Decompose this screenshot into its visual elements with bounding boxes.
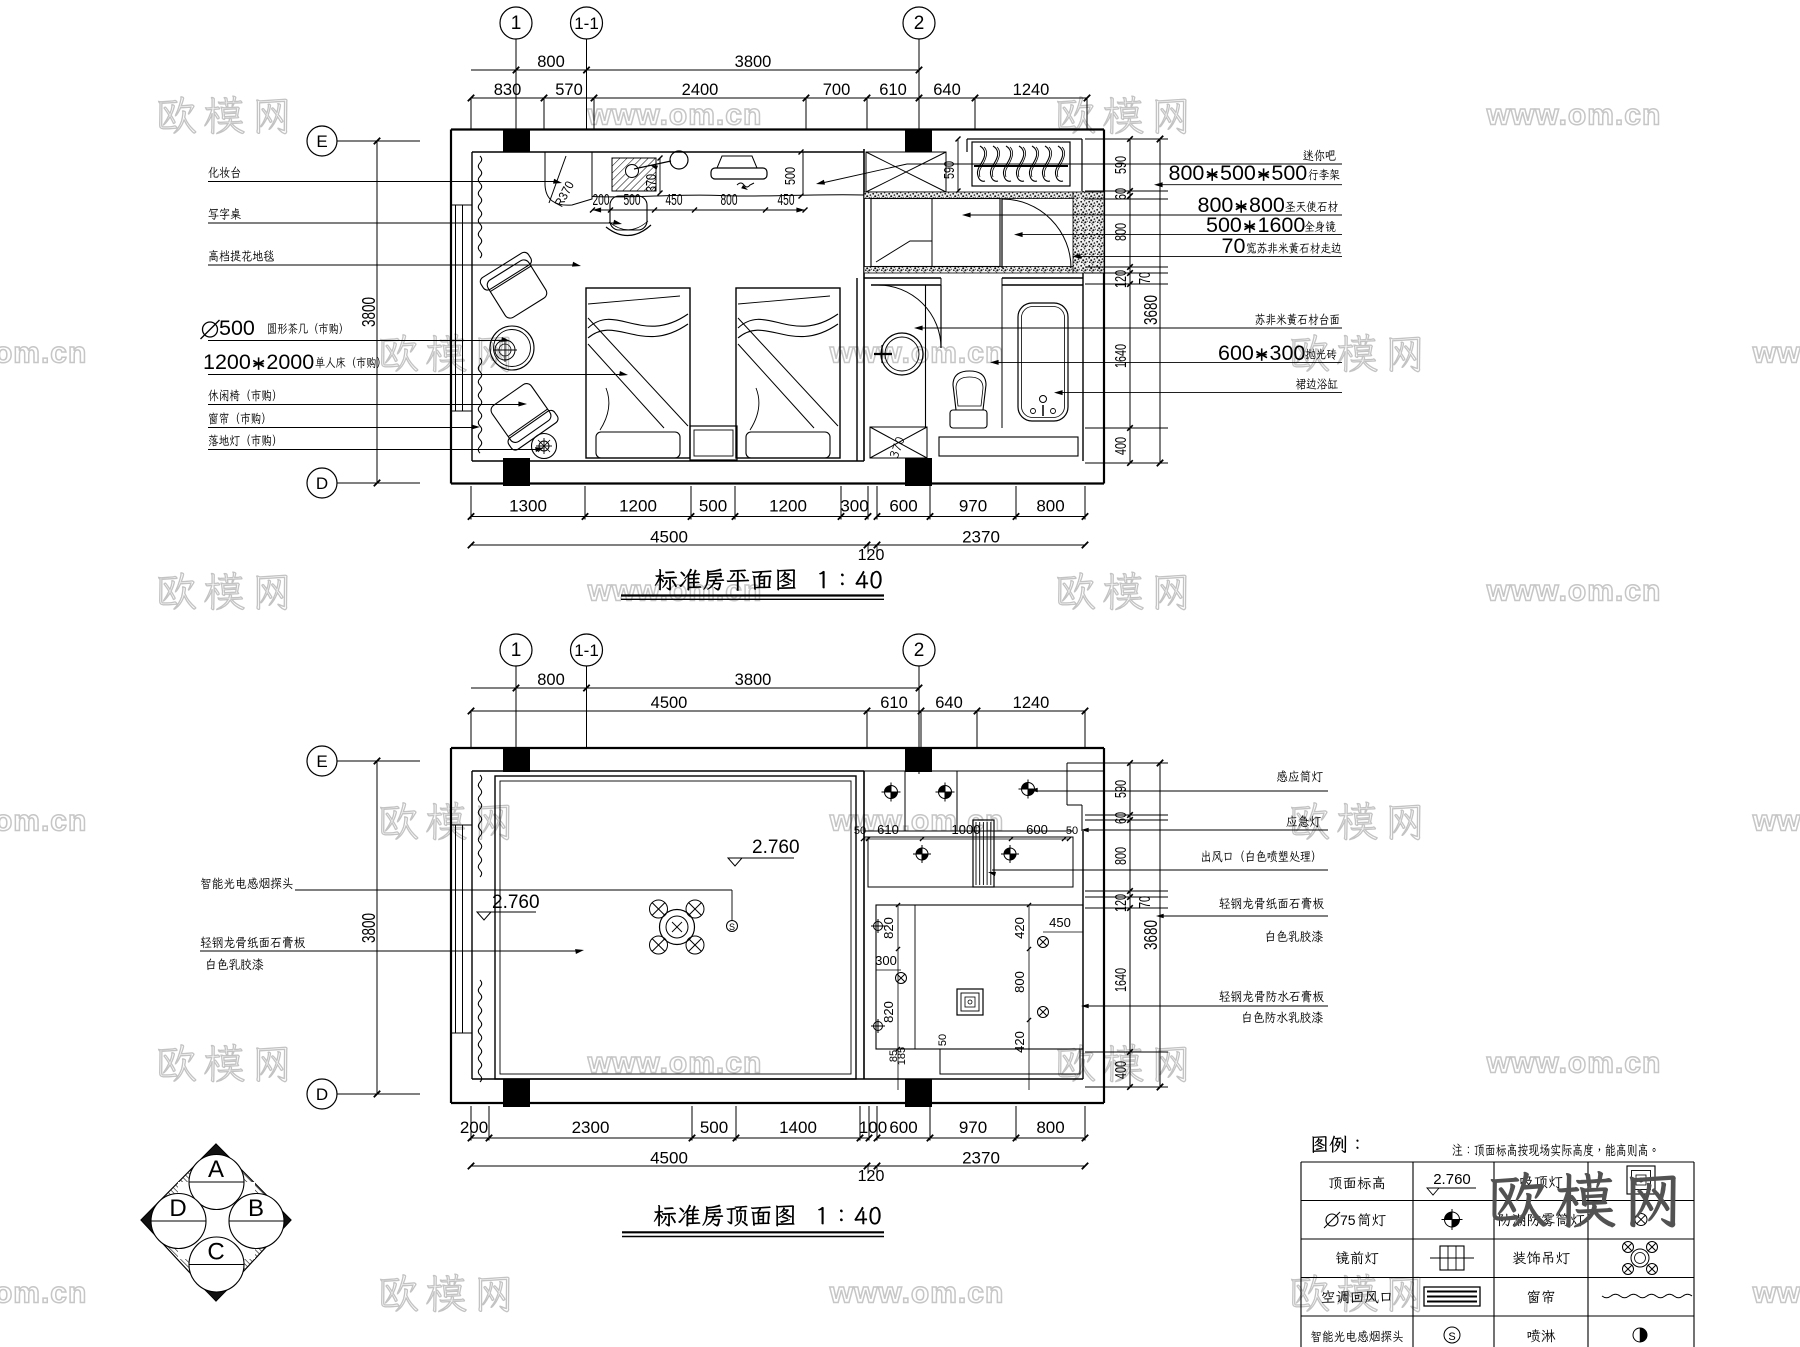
svg-text:100: 100 — [859, 1118, 887, 1137]
luggage rack rail — [974, 165, 1068, 167]
axis 1-1 circle — [571, 7, 603, 39]
svg-text:370: 370 — [643, 174, 660, 192]
bottom extension lines — [470, 486, 472, 520]
svg-text:1640: 1640 — [1113, 968, 1130, 992]
svg-text:1640: 1640 — [1113, 344, 1130, 368]
axis 1 circle — [500, 7, 532, 39]
svg-text:820: 820 — [881, 917, 896, 939]
mirror lights — [916, 848, 928, 860]
circle C — [189, 1237, 244, 1292]
svg-text:800: 800 — [537, 53, 565, 71]
svg-text:120: 120 — [1113, 894, 1130, 912]
label 轻钢龙骨防水石膏板 — [1219, 990, 1324, 1002]
svg-text:200: 200 — [460, 1118, 488, 1137]
svg-text:4500: 4500 — [651, 694, 688, 712]
chandelier symbol (legend) — [1631, 1249, 1649, 1267]
wet ceiling inner line — [914, 905, 916, 1049]
svg-text:www.om.cn: www.om.cn — [0, 805, 87, 838]
dressing table (quarter round) — [545, 152, 592, 205]
svg-text:640: 640 — [935, 694, 963, 712]
svg-text:1-1: 1-1 — [574, 14, 599, 33]
TV screen bar — [711, 168, 767, 179]
window glazing lines — [455, 205, 457, 411]
window glazing (bottom plan) — [455, 825, 457, 1033]
svg-text:400: 400 — [1113, 1061, 1130, 1079]
svg-text:www.om.cn: www.om.cn — [0, 337, 87, 370]
svg-text:500: 500 — [700, 1118, 728, 1137]
svg-text:300: 300 — [840, 497, 868, 516]
ceiling border inner — [500, 781, 851, 1074]
label 白色乳胶漆 (right) — [1266, 930, 1322, 942]
bed 2 — [736, 288, 840, 458]
dim 370 in shower box — [889, 436, 905, 459]
right chain1 (bottom) — [1129, 763, 1131, 1087]
bottom dim row2 (bottom plan) — [471, 1165, 1085, 1167]
svg-text:1200: 1200 — [203, 350, 251, 374]
svg-text:800: 800 — [537, 671, 565, 689]
svg-text:2300: 2300 — [572, 1118, 610, 1137]
svg-text:500: 500 — [699, 497, 727, 516]
label 应急灯 — [1287, 815, 1321, 827]
circle D — [151, 1194, 206, 1249]
svg-text:420: 420 — [1012, 917, 1027, 939]
niche step (bottom plan) — [1067, 762, 1104, 764]
right chain2 3680 — [1159, 139, 1161, 463]
watermark row y=114 — [159, 96, 287, 133]
3800 vertical dim — [376, 141, 378, 483]
axis 1-1 circle (bottom) — [571, 634, 603, 666]
dim row 800/3800 — [471, 69, 919, 71]
label 感应筒灯 — [1277, 770, 1323, 782]
svg-text:2: 2 — [914, 13, 925, 34]
svg-text:400: 400 — [1113, 437, 1130, 455]
toilet tank — [950, 410, 987, 428]
column bottom-left (bottom) — [503, 1079, 530, 1107]
svg-text:1-1: 1-1 — [574, 641, 599, 660]
top wall outer — [451, 128, 1104, 130]
partition bedroom/bath main line — [863, 149, 865, 461]
svg-text:D: D — [169, 1195, 186, 1222]
svg-text:1: 1 — [511, 13, 522, 34]
mirror lamp circle on hatch — [626, 165, 639, 178]
wet room west wall second line — [856, 278, 858, 461]
column bottom-left — [503, 458, 530, 486]
dim 590 vertical in niche — [957, 139, 959, 191]
svg-text:800: 800 — [1036, 497, 1064, 516]
bottom wall inner (bottom plan) — [472, 1078, 1083, 1080]
half-filled circle symbol — [1633, 1328, 1647, 1342]
top wall inner — [472, 151, 864, 153]
stone band top (speckle) — [864, 192, 1073, 199]
bottom dim row1 (bottom plan) — [471, 1137, 869, 1139]
svg-text:1300: 1300 — [509, 497, 547, 516]
axis extension lines — [515, 39, 517, 152]
entry door leaf — [1001, 199, 1003, 268]
svg-text:1240: 1240 — [1013, 81, 1050, 99]
svg-text:1200: 1200 — [619, 497, 657, 516]
svg-text:60: 60 — [1113, 188, 1130, 200]
svg-text:www.om.cn: www.om.cn — [1752, 1277, 1800, 1310]
ceiling border outer — [495, 776, 856, 1079]
svg-text:2370: 2370 — [962, 1149, 1000, 1168]
svg-text:70: 70 — [1137, 272, 1154, 284]
svg-text:1240: 1240 — [1013, 694, 1050, 712]
svg-text:www.om.cn: www.om.cn — [829, 337, 1005, 370]
bottom wall inner — [472, 460, 864, 462]
shower x-box — [870, 427, 927, 458]
svg-text:www.om.cn: www.om.cn — [587, 1047, 763, 1080]
svg-text:820: 820 — [881, 1001, 896, 1023]
lounge chair 2 — [485, 379, 560, 452]
bottom shelf rect (ceiling) — [940, 1049, 1080, 1074]
svg-text:500: 500 — [1220, 161, 1256, 185]
svg-text:640: 640 — [933, 81, 961, 99]
svg-text:1400: 1400 — [779, 1118, 817, 1137]
svg-text:3800: 3800 — [735, 671, 772, 689]
svg-text:75: 75 — [1340, 1212, 1356, 1228]
axis D circle (bottom) — [307, 1079, 337, 1109]
svg-text:800: 800 — [1036, 1118, 1064, 1137]
column bottom-right (bottom) — [905, 1079, 932, 1107]
mirror square hatched — [612, 158, 656, 191]
svg-text:D: D — [316, 1085, 328, 1104]
right wall outer (bottom plan) — [1103, 748, 1105, 1103]
svg-text:1200: 1200 — [769, 497, 807, 516]
entry zone lines — [864, 770, 1104, 772]
right wall inner (bottom plan) — [1082, 831, 1084, 1079]
svg-text:450: 450 — [666, 192, 683, 209]
right wall inner lower — [1082, 270, 1084, 461]
partition line (bottom) — [863, 771, 865, 1079]
svg-text:3800: 3800 — [359, 913, 379, 943]
label 窗帘(市购) — [209, 412, 265, 424]
mirror lamp arm — [634, 161, 671, 169]
svg-text:A: A — [208, 1156, 224, 1183]
bathtub inner — [1022, 307, 1065, 418]
minibar divider — [802, 152, 804, 194]
svg-text:120: 120 — [1113, 270, 1130, 288]
svg-text:www.om.cn: www.om.cn — [1486, 575, 1662, 608]
glasses squiggle — [737, 183, 754, 187]
row4 空调回风口 — [1322, 1290, 1391, 1303]
chandelier center — [660, 910, 695, 945]
svg-text:70: 70 — [1222, 234, 1246, 258]
big dark watermark 欧模网 over legend — [1491, 1171, 1676, 1228]
desk front edge — [592, 195, 864, 197]
label 迷你吧 — [1303, 150, 1335, 162]
svg-text:800: 800 — [1169, 161, 1205, 185]
row5 智能光电感烟探头 — [1311, 1330, 1403, 1342]
smoke detector leader — [295, 889, 732, 891]
svg-text:50: 50 — [854, 825, 866, 837]
label 白色防水乳胶漆 — [1243, 1011, 1323, 1023]
nightstand — [690, 426, 737, 460]
inner square white — [178, 1182, 255, 1259]
svg-text:450: 450 — [1049, 915, 1071, 930]
svg-text:C: C — [207, 1239, 224, 1266]
column bottom-right — [905, 458, 932, 486]
label 轻钢龙骨纸面石膏板 (left) — [201, 936, 306, 948]
svg-text:E: E — [316, 132, 327, 151]
right wall inner upper — [1082, 191, 1084, 199]
label 白色乳胶漆 (left) — [207, 958, 263, 970]
svg-text:www.om.cn: www.om.cn — [829, 1277, 1005, 1310]
curtain wavy (bottom plan) — [478, 775, 481, 877]
vanity bulkhead strip — [868, 837, 1073, 887]
svg-text:800: 800 — [1012, 971, 1027, 993]
label 智能光电感烟探头 — [201, 877, 293, 889]
dim row 4500/610/640/1240 (bottom) — [471, 710, 1085, 712]
right extension lines — [1085, 138, 1168, 140]
svg-text:600: 600 — [1026, 822, 1048, 837]
watermark row y=1062 — [159, 1044, 287, 1081]
label 休闲椅(市购) — [208, 389, 275, 401]
dim 500 vertical at TV — [799, 150, 804, 155]
washbasin inner — [885, 337, 919, 371]
diamond corner darks — [196, 1144, 236, 1164]
svg-text:185: 185 — [896, 1047, 908, 1065]
svg-text:700: 700 — [823, 81, 851, 99]
svg-text:www.om.cn: www.om.cn — [587, 99, 763, 132]
row1 square lamp symbol — [1627, 1166, 1655, 1194]
stone band bottom (speckle) — [864, 267, 1073, 274]
mirror light symbol — [1440, 1246, 1464, 1270]
svg-text:B: B — [248, 1195, 264, 1222]
grille symbol — [1424, 1287, 1480, 1306]
label 轻钢龙骨纸面石膏板 (right) — [1219, 897, 1324, 909]
3800 vertical (bottom) — [376, 761, 378, 1094]
vanity divider — [931, 199, 933, 267]
vanity basin trapezoid — [876, 241, 932, 262]
label Ø500圆形茶几(市购) — [203, 322, 218, 337]
svg-text:www.om.cn: www.om.cn — [587, 575, 763, 608]
niche step lines — [966, 139, 968, 152]
bottom wall outer (bottom plan) — [451, 1102, 1104, 1104]
bathtub outer — [1018, 303, 1068, 421]
label 化妆台 — [208, 166, 240, 178]
bath door leaf — [940, 285, 942, 348]
svg-text:500: 500 — [782, 167, 799, 185]
svg-text:70: 70 — [1137, 896, 1154, 908]
svg-text:120: 120 — [858, 1168, 885, 1185]
svg-text:2.760: 2.760 — [1433, 1171, 1471, 1188]
desk chair — [610, 196, 647, 230]
top wall inner (bottom plan) — [472, 770, 864, 772]
bottom extension lines (bottom plan) — [470, 1106, 472, 1141]
svg-text:S: S — [1448, 1331, 1455, 1343]
svg-text:570: 570 — [555, 81, 583, 99]
wet ceiling dims — [897, 905, 899, 1090]
svg-text:590: 590 — [1113, 780, 1130, 798]
svg-text:www.om.cn: www.om.cn — [1486, 99, 1662, 132]
circle B — [229, 1194, 284, 1249]
svg-text:800: 800 — [1113, 847, 1130, 865]
svg-text:600: 600 — [889, 497, 917, 516]
left wall inner — [471, 152, 473, 461]
title 标准房顶面图 1:40 — [654, 1205, 795, 1227]
axis 2 circle (bottom) — [903, 634, 935, 666]
bath shelf rect — [939, 437, 1078, 456]
wet room divider — [925, 285, 927, 428]
svg-text:500: 500 — [624, 192, 641, 209]
toilet bowl — [953, 371, 986, 410]
right extension lines (bottom) — [1085, 762, 1168, 764]
svg-text:S: S — [729, 922, 735, 932]
diamond hatched ring fill — [141, 1144, 291, 1301]
right wall outer — [1103, 130, 1105, 484]
svg-text:4500: 4500 — [650, 528, 688, 547]
svg-text:1600: 1600 — [1258, 213, 1306, 237]
label 高档提花地毯 — [209, 250, 274, 262]
svg-text:610: 610 — [880, 694, 908, 712]
dim 370 vertical at mirror — [659, 158, 661, 193]
column top-right (bottom) — [905, 748, 932, 772]
title 标准房平面图 1:40 — [655, 569, 796, 591]
svg-text:4500: 4500 — [650, 1149, 688, 1168]
desk dim chain 200/500/450/800/450 — [593, 209, 806, 211]
svg-text:60: 60 — [1113, 812, 1130, 824]
svg-text:500: 500 — [1271, 161, 1307, 185]
row2 Ø75筒灯 — [1326, 1214, 1338, 1226]
top wall outer (bottom plan) — [451, 747, 1104, 749]
tub alcove line — [1001, 285, 1003, 428]
label 出风口(白色喷塑处理) — [1202, 850, 1314, 862]
svg-text:610: 610 — [879, 81, 907, 99]
svg-text:3680: 3680 — [1141, 295, 1161, 325]
dim row 800/3800 (bottom) — [471, 687, 919, 689]
svg-text:500: 500 — [219, 316, 255, 340]
svg-text:450: 450 — [778, 192, 795, 209]
svg-text:970: 970 — [959, 497, 987, 516]
svg-text:50: 50 — [1066, 825, 1078, 837]
row1 顶面标高 — [1329, 1176, 1384, 1189]
strip dim row 50/610/1000/600/50 — [863, 838, 1069, 840]
lamp end circle — [670, 151, 688, 169]
label 苏非米黄石材台面 — [1255, 313, 1339, 325]
left wall outer — [450, 130, 452, 484]
label 落地灯(市购) — [209, 434, 275, 446]
toilet inner — [956, 377, 983, 406]
svg-text:3680: 3680 — [1141, 920, 1161, 950]
dressing table radius line — [549, 156, 566, 203]
60 step line — [864, 836, 1073, 838]
closet x-box — [866, 152, 946, 192]
stone door portal speckle — [1073, 192, 1104, 273]
svg-text:50: 50 — [937, 1034, 949, 1046]
bottom wall outer — [451, 482, 1104, 484]
TV back trapezoid — [717, 156, 757, 168]
svg-text:600: 600 — [889, 1118, 917, 1137]
curtain wavy — [478, 156, 481, 258]
svg-text:420: 420 — [1012, 1031, 1027, 1053]
wet room ceiling rect — [876, 905, 1083, 1049]
svg-text:800: 800 — [721, 192, 738, 209]
column top-left (bottom) — [503, 748, 530, 772]
axis 2 circle — [903, 7, 935, 39]
svg-text:E: E — [316, 752, 327, 771]
luggage rack box — [972, 142, 1070, 186]
svg-text:www.om.cn: www.om.cn — [0, 1277, 87, 1310]
watermark row y=590 — [159, 572, 287, 609]
axis E circle (bottom) — [307, 746, 337, 776]
svg-text:1000: 1000 — [952, 822, 981, 837]
luggage rack hangers — [977, 146, 985, 181]
bottom dim row1 — [471, 516, 868, 518]
svg-text:www.om.cn: www.om.cn — [1752, 805, 1800, 838]
vanity counter rect — [871, 199, 1000, 267]
svg-text:120: 120 — [858, 547, 885, 564]
washbasin outer — [881, 333, 923, 375]
svg-text:970: 970 — [959, 1118, 987, 1137]
column top-right — [905, 130, 932, 153]
svg-text:2400: 2400 — [682, 81, 719, 99]
axis D circle — [307, 468, 337, 498]
wet room north wall lines — [864, 277, 941, 279]
svg-text:610: 610 — [877, 822, 899, 837]
tub drain — [1040, 396, 1047, 403]
svg-text:2.760: 2.760 — [752, 837, 800, 858]
svg-text:3800: 3800 — [735, 53, 772, 71]
svg-text:300: 300 — [875, 953, 897, 968]
bottom dim row2 4500/120/2370 — [471, 544, 1085, 546]
chandelier satellites — [650, 900, 668, 918]
tub faucet dots — [1031, 409, 1036, 414]
right chain2 3680 (bottom) — [1159, 763, 1161, 1087]
axis E circle — [307, 126, 337, 156]
bath door arc — [878, 285, 941, 348]
svg-text:300: 300 — [1270, 341, 1306, 365]
wet ceiling lights — [874, 922, 883, 931]
row3 镜前灯 — [1336, 1251, 1379, 1264]
svg-text:2: 2 — [914, 640, 925, 661]
bed 1 — [586, 288, 690, 458]
svg-text:www.om.cn: www.om.cn — [1752, 337, 1800, 370]
tea table outer — [490, 326, 534, 370]
svg-text:2000: 2000 — [266, 350, 314, 374]
left wall inner (bottom plan) — [471, 771, 473, 1079]
sensor downlights — [885, 786, 898, 799]
axis 1 circle (bottom) — [500, 634, 532, 666]
svg-text:3800: 3800 — [359, 297, 379, 327]
column top-left — [503, 130, 530, 153]
svg-text:2370: 2370 — [962, 528, 1000, 547]
label 裙边浴缸 — [1296, 378, 1338, 390]
right chain1 590/60/800/120/1640/400 — [1129, 139, 1131, 463]
legend table grid — [1301, 1161, 1694, 1163]
circle A — [189, 1155, 244, 1210]
square ceiling lamp — [957, 989, 983, 1015]
svg-text:www.om.cn: www.om.cn — [1486, 1047, 1662, 1080]
floor lamp — [532, 434, 557, 459]
tea table center symbol — [495, 340, 515, 360]
label 写字桌 — [208, 208, 240, 220]
tea table inner — [494, 330, 531, 367]
svg-text:830: 830 — [494, 81, 522, 99]
svg-text:2.760: 2.760 — [492, 892, 540, 913]
lounge chair 1 — [478, 250, 552, 322]
bath inner west line — [870, 198, 872, 273]
entry door arc — [1002, 199, 1071, 268]
svg-text:1: 1 — [511, 640, 522, 661]
svg-text:D: D — [316, 474, 328, 493]
desk divider line — [591, 152, 593, 197]
legend title 图例 — [1312, 1136, 1358, 1153]
svg-text:200: 200 — [593, 192, 610, 209]
smoke detector S — [727, 921, 738, 932]
svg-text:600: 600 — [1218, 341, 1254, 365]
basin faucet — [874, 353, 892, 355]
svg-text:590: 590 — [1113, 156, 1130, 174]
